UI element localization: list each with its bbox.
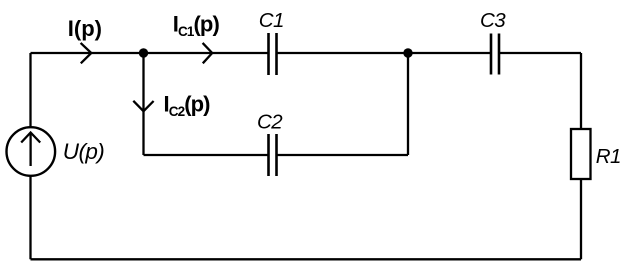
wire left vertical below source U1 <box>29 176 31 260</box>
label R1 <box>596 145 621 168</box>
label IC1(p) <box>173 12 220 40</box>
wire left vertical above source U1 <box>29 53 31 127</box>
current source U1 arrow <box>21 133 40 167</box>
svg-text:R1: R1 <box>596 145 621 168</box>
wire branch vertical from node A down <box>142 53 144 155</box>
svg-text:C1: C1 <box>259 9 284 32</box>
capacitor C2 plates <box>269 134 277 176</box>
current arrow IC2(p) on branch wire (down) <box>133 101 153 111</box>
label C3 <box>480 9 506 32</box>
wire branch horizontal right segment (C2 right plate to riser) <box>277 154 409 156</box>
label C2 <box>257 111 283 134</box>
wire branch vertical riser up to node B <box>407 53 409 155</box>
capacitor C1 plates <box>269 33 277 75</box>
resistor R1 body <box>571 129 591 179</box>
wire bottom horizontal <box>31 258 582 260</box>
svg-text:I(p): I(p) <box>68 16 102 41</box>
svg-text:U(p): U(p) <box>63 139 104 164</box>
svg-text:C2: C2 <box>257 111 283 134</box>
node B junction dot <box>403 48 412 57</box>
node A junction dot <box>139 48 148 57</box>
svg-text:C3: C3 <box>480 9 506 32</box>
label IC2(p) <box>164 91 211 119</box>
current arrow IC1(p) on top wire <box>203 43 213 63</box>
wire right vertical below resistor R1 <box>580 179 582 259</box>
label I(p) <box>68 16 102 41</box>
wire branch horizontal left segment (corner to C2 left plate) <box>144 154 269 156</box>
capacitor C3 plates <box>491 34 499 75</box>
current source U1 circle <box>7 127 56 176</box>
wire top-middle segment (C1 right plate through node B to C3 left plate) <box>277 52 492 54</box>
wire top-left segment (source top corner to C1 left plate) <box>31 52 269 54</box>
wire top-right segment (C3 right plate to right corner) <box>499 52 581 54</box>
label C1 <box>259 9 284 32</box>
label U(p) <box>63 139 104 164</box>
current arrow I(p) on top wire <box>81 43 92 63</box>
wire right vertical above resistor R1 <box>580 53 582 129</box>
